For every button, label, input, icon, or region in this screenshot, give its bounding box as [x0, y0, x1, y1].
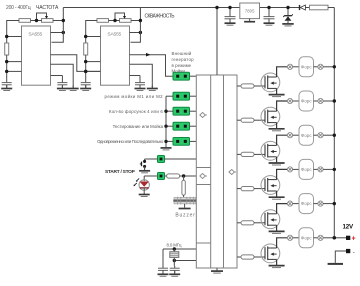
- wire U2 output to jumper J1: [130, 53, 174, 76]
- capacitor CU1b: [51, 76, 68, 88]
- svg-text:генератор: генератор: [172, 57, 195, 62]
- capacitor CU1a: [2, 82, 12, 88]
- jumper J1 external generator: [173, 72, 196, 80]
- ground LED: [139, 191, 150, 196]
- svg-text:Мойки: Мойки: [172, 69, 186, 74]
- connector P2a: [287, 98, 292, 103]
- ground U2a: [80, 85, 91, 90]
- connector P4a: [287, 167, 292, 172]
- jumper J7 LED: [144, 173, 164, 180]
- ground C8: [264, 20, 275, 25]
- svg-text:Форс: Форс: [301, 133, 313, 138]
- svg-text:200 - 400Гц: 200 - 400Гц: [6, 5, 31, 11]
- resistor RU1a: [19, 19, 31, 23]
- wire U2 pin6 loop: [130, 31, 143, 43]
- resistor R5: [310, 5, 335, 10]
- resistor RQ4: [237, 187, 265, 191]
- injector L2: [293, 91, 318, 111]
- ground U4: [244, 19, 255, 22]
- svg-text:SA555: SA555: [28, 31, 42, 37]
- label J5: [97, 139, 164, 144]
- ground battery: [328, 263, 343, 265]
- jumper J4: [166, 122, 196, 130]
- pushbutton SW1: [140, 159, 146, 170]
- label 12V: [343, 224, 354, 231]
- resistor R4: [182, 176, 185, 195]
- transistor Q3: [261, 135, 287, 162]
- svg-text:режим мойки М1 или М2: режим мойки М1 или М2: [105, 94, 164, 99]
- ground U1c: [57, 85, 68, 90]
- ground SW1: [139, 168, 150, 173]
- wire U2 pin5: [130, 64, 153, 87]
- port marker U3 B: [200, 174, 207, 179]
- wire U1 pin5: [51, 64, 74, 87]
- ground jumper bus: [161, 145, 172, 150]
- capacitor C7: [225, 6, 236, 23]
- ground D3: [282, 21, 294, 26]
- svg-text:СКВАЖНОСТЬ: СКВАЖНОСТЬ: [145, 14, 176, 20]
- injector L6: [293, 228, 318, 248]
- diode D1: [300, 5, 310, 10]
- svg-text:12V: 12V: [343, 224, 354, 231]
- ground Q4: [269, 197, 285, 199]
- ground Q6: [269, 266, 285, 268]
- capacitor C8: [264, 6, 275, 23]
- resistor RQ1: [237, 84, 265, 88]
- connector P5b: [318, 201, 323, 206]
- zener diode D3: [283, 6, 293, 21]
- voltage regulator U4 7805: [240, 3, 260, 19]
- label external generator: [172, 51, 195, 73]
- transistor Q2: [261, 101, 287, 128]
- ground U2b: [147, 85, 158, 90]
- LED D2: [134, 176, 150, 191]
- wire OSC1: [163, 247, 196, 250]
- wire injector 5 to bus: [323, 202, 336, 205]
- connector P2b: [318, 98, 323, 103]
- label 200-400Hz: [6, 5, 31, 11]
- wire OSC2: [173, 259, 197, 262]
- svg-text:START / STOP: START / STOP: [105, 169, 136, 175]
- potentiometer RVU2: [109, 13, 141, 22]
- wire +5V to U3: [215, 6, 218, 75]
- connector P1a: [287, 64, 292, 69]
- capacitor CU2a: [81, 82, 91, 88]
- capacitor C6: [170, 261, 180, 274]
- label J2: [105, 94, 164, 99]
- svg-text:ЧАСТОТА: ЧАСТОТА: [36, 5, 59, 11]
- wire +12V right bus: [333, 8, 335, 238]
- terminal +12V: [333, 236, 356, 243]
- label J3: [109, 109, 163, 114]
- jumper J2: [166, 92, 196, 100]
- crystal X1 8.0MHz: [170, 249, 179, 261]
- connector P1b: [318, 64, 323, 69]
- wire U1 left rail: [5, 55, 22, 82]
- ground C7: [225, 20, 236, 25]
- svg-text:Форс: Форс: [301, 235, 313, 240]
- svg-text:Тестирование или Мойка: Тестирование или Мойка: [113, 124, 164, 129]
- ground Q5: [269, 231, 285, 233]
- label СКВАЖНОСТЬ: [145, 14, 176, 20]
- svg-text:Форс: Форс: [301, 99, 313, 104]
- ground C5: [158, 271, 169, 276]
- jumper J5: [166, 138, 196, 146]
- resistor RU2a: [97, 19, 109, 23]
- transistor Q5: [261, 204, 287, 231]
- transistor Q4: [261, 169, 287, 196]
- injector L5: [293, 194, 318, 214]
- wire injector 2 to bus: [323, 99, 336, 102]
- buzzer BZ1: [173, 195, 196, 209]
- svg-text:Кол-во форсунок 4 или 6: Кол-во форсунок 4 или 6: [109, 109, 163, 114]
- resistor RQ6: [237, 255, 265, 259]
- ground Q2: [269, 129, 285, 131]
- wire injector 3 to bus: [323, 134, 336, 137]
- connector P3b: [318, 133, 323, 138]
- transistor Q1: [261, 67, 287, 94]
- capacitor CU2b: [130, 76, 146, 88]
- wire injector 4 to bus: [323, 168, 336, 171]
- connector P4b: [318, 167, 323, 172]
- timer IC U1: [22, 26, 51, 85]
- jumper J3: [166, 107, 196, 115]
- wire injector 6 to bus: [323, 236, 336, 239]
- svg-text:Buzzer: Buzzer: [175, 212, 195, 218]
- ground U1a: [1, 85, 12, 90]
- label START / STOP: [105, 169, 136, 175]
- ground C6: [169, 271, 180, 276]
- ground U3: [211, 268, 223, 273]
- terminal -12V: [346, 249, 355, 256]
- connector P3a: [287, 133, 292, 138]
- resistor RQ5: [237, 221, 265, 225]
- wire U1 output to U2: [51, 55, 101, 73]
- svg-text:Внешний: Внешний: [172, 51, 192, 56]
- svg-text:Форс: Форс: [301, 64, 313, 69]
- timer IC U2: [101, 26, 130, 85]
- wire U2 left rail: [84, 55, 101, 82]
- port marker U3 C: [229, 170, 236, 175]
- wire U1 pin6 loop: [51, 31, 66, 43]
- injector L1: [293, 57, 318, 77]
- injector L4: [293, 159, 318, 179]
- svg-text:+: +: [352, 236, 356, 243]
- label Buzzer: [175, 212, 195, 218]
- wire jumper ground bus: [164, 96, 167, 147]
- wire U2 right rail: [139, 8, 142, 33]
- svg-text:Форс: Форс: [301, 201, 313, 206]
- ground U1b: [68, 85, 79, 90]
- ground U2c: [135, 85, 146, 90]
- resistor R3: [165, 174, 197, 178]
- label 8.0 MHz: [167, 242, 182, 247]
- ground Q3: [269, 163, 285, 165]
- wire U2 top-left: [84, 21, 101, 44]
- resistor RU2b: [84, 43, 88, 55]
- resistor RU1b: [5, 43, 9, 55]
- capacitor C5: [158, 249, 168, 273]
- svg-text:Одновременно или Последователь: Одновременно или Последовательно: [97, 139, 164, 144]
- label ЧАСТОТА: [36, 5, 59, 11]
- connector P6a: [287, 235, 292, 240]
- svg-text:Форс: Форс: [301, 167, 313, 172]
- potentiometer RVU1: [31, 13, 64, 22]
- microcontroller U3: [196, 75, 237, 268]
- wire U1 top-left: [5, 21, 22, 44]
- svg-text:8.0 МГц: 8.0 МГц: [167, 242, 182, 247]
- port marker U3 A: [200, 113, 207, 118]
- resistor RQ3: [237, 152, 265, 156]
- resistor RQ2: [237, 118, 265, 122]
- connector P5a: [287, 201, 292, 206]
- wire +5V rail: [63, 7, 334, 9]
- connector P6b: [318, 235, 323, 240]
- jumper J6 start: [145, 156, 197, 163]
- injector L3: [293, 125, 318, 145]
- label J4: [113, 124, 164, 129]
- ground Q1: [269, 95, 285, 97]
- wire injector 1 to bus: [323, 65, 336, 68]
- wire -12V to ground: [335, 251, 346, 263]
- svg-text:-: -: [353, 249, 355, 256]
- svg-text:в режиме: в режиме: [172, 63, 192, 68]
- svg-text:7805: 7805: [245, 9, 255, 14]
- svg-text:SA555: SA555: [107, 31, 121, 37]
- wire U1 right rail: [62, 8, 65, 33]
- transistor Q6: [261, 238, 287, 265]
